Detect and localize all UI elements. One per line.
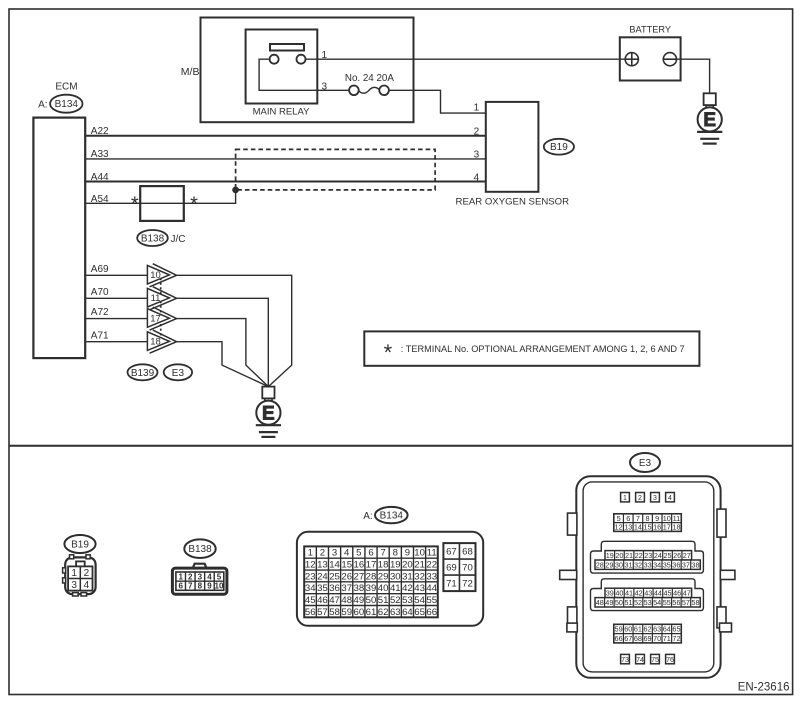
- svg-text:67: 67: [446, 546, 457, 557]
- svg-text:9: 9: [405, 548, 410, 559]
- wire from triangle 11 to ground: [177, 298, 269, 386]
- svg-text:54: 54: [653, 598, 661, 607]
- svg-text:3: 3: [322, 81, 328, 92]
- svg-text:38: 38: [354, 583, 365, 594]
- section divider: [9, 445, 793, 447]
- svg-text:33: 33: [644, 560, 652, 569]
- svg-text:1: 1: [623, 495, 627, 502]
- E3 pins 59-72: [614, 624, 681, 643]
- svg-text:63: 63: [653, 625, 661, 634]
- svg-text:73: 73: [621, 657, 629, 664]
- connector E3 body outer: [576, 476, 720, 678]
- svg-text:7: 7: [636, 514, 640, 523]
- svg-text:B134: B134: [380, 511, 404, 522]
- svg-text:66: 66: [426, 607, 437, 618]
- svg-text:50: 50: [615, 598, 623, 607]
- svg-text:E3: E3: [639, 458, 652, 469]
- svg-text:45: 45: [663, 588, 671, 597]
- svg-text:68: 68: [634, 634, 642, 643]
- connector B138 body: [193, 564, 207, 568]
- svg-text:27: 27: [683, 551, 691, 560]
- E3 pins 19-27: [605, 551, 692, 560]
- svg-text:23: 23: [644, 551, 652, 560]
- svg-text:24: 24: [317, 571, 328, 582]
- connector B19 pin grid: [68, 566, 92, 590]
- wire A22 to sensor pin 2: [85, 135, 486, 137]
- svg-text:71: 71: [446, 578, 457, 589]
- wire from triangle 18 to ground: [177, 342, 269, 387]
- svg-text:34: 34: [653, 560, 661, 569]
- svg-text:2: 2: [638, 495, 642, 502]
- svg-text:10: 10: [414, 548, 425, 559]
- svg-text:72: 72: [462, 578, 473, 589]
- svg-text:1: 1: [308, 548, 313, 559]
- svg-text:J/C: J/C: [171, 234, 186, 245]
- svg-text:5: 5: [617, 514, 621, 523]
- wire A70: [85, 297, 147, 299]
- svg-text:54: 54: [414, 595, 425, 606]
- wire from triangle 17 to ground: [177, 319, 269, 387]
- svg-text:18: 18: [378, 559, 389, 570]
- E3 pins 48-58: [595, 598, 700, 607]
- svg-text:46: 46: [317, 595, 328, 606]
- connector oval B19 bottom: [64, 535, 95, 553]
- svg-text:30: 30: [615, 560, 623, 569]
- E3 pins 39-47: [605, 588, 692, 597]
- svg-text:61: 61: [366, 607, 377, 618]
- svg-text:62: 62: [378, 607, 389, 618]
- svg-text:26: 26: [673, 551, 681, 560]
- svg-text:ECM: ECM: [55, 82, 77, 93]
- svg-text:76: 76: [666, 657, 674, 664]
- svg-text:B134: B134: [55, 99, 79, 110]
- svg-text:1: 1: [178, 572, 183, 581]
- fuse No. 24 20A: [349, 86, 359, 96]
- svg-text:49: 49: [605, 598, 613, 607]
- battery plus terminal: [625, 53, 638, 66]
- svg-text:6: 6: [368, 548, 373, 559]
- svg-text:3: 3: [332, 548, 337, 559]
- junction node on shield: [232, 187, 239, 194]
- shield dashed box: [236, 149, 436, 190]
- svg-text:11: 11: [151, 293, 161, 304]
- svg-text:47: 47: [329, 595, 340, 606]
- svg-text:B19: B19: [71, 539, 89, 550]
- svg-text:49: 49: [354, 595, 365, 606]
- ground E battery: [704, 93, 716, 105]
- svg-text:B138: B138: [141, 233, 165, 244]
- wire A71: [85, 341, 147, 343]
- svg-text:A72: A72: [91, 307, 109, 318]
- wire battery to ground: [677, 59, 710, 93]
- svg-text:*: *: [131, 194, 139, 216]
- svg-text:37: 37: [341, 583, 352, 594]
- svg-text:29: 29: [605, 560, 613, 569]
- note box: [364, 331, 699, 365]
- svg-text:17: 17: [150, 313, 161, 324]
- svg-text:21: 21: [625, 551, 633, 560]
- svg-text:4: 4: [207, 572, 212, 581]
- svg-text:32: 32: [414, 571, 425, 582]
- svg-text:56: 56: [305, 607, 316, 618]
- svg-text:1: 1: [71, 568, 77, 579]
- relay contact right: [297, 55, 306, 64]
- svg-text:65: 65: [672, 625, 680, 634]
- wire fuse to sensor pin 1: [389, 90, 486, 113]
- svg-text:14: 14: [329, 559, 340, 570]
- svg-text:E: E: [703, 110, 716, 131]
- svg-text:64: 64: [402, 607, 413, 618]
- svg-text:55: 55: [426, 595, 437, 606]
- svg-text:B138: B138: [188, 544, 212, 555]
- svg-text:43: 43: [414, 583, 425, 594]
- svg-text:53: 53: [644, 598, 652, 607]
- svg-text:25: 25: [663, 551, 671, 560]
- svg-text:BATTERY: BATTERY: [629, 24, 671, 34]
- E3 block 39-58 outline: [591, 579, 704, 611]
- svg-text:23: 23: [305, 571, 316, 582]
- svg-text:34: 34: [305, 583, 316, 594]
- svg-text:59: 59: [341, 607, 352, 618]
- svg-text:8: 8: [646, 514, 650, 523]
- svg-text:1: 1: [322, 50, 328, 61]
- svg-text:15: 15: [643, 523, 651, 532]
- svg-text:22: 22: [635, 551, 643, 560]
- svg-text:60: 60: [624, 625, 632, 634]
- svg-text:27: 27: [354, 571, 365, 582]
- svg-text:43: 43: [644, 588, 652, 597]
- svg-text:48: 48: [596, 598, 604, 607]
- svg-text:6: 6: [178, 582, 183, 591]
- svg-text:M/B: M/B: [181, 66, 200, 78]
- svg-text:22: 22: [426, 559, 437, 570]
- svg-text:40: 40: [378, 583, 389, 594]
- svg-text:35: 35: [317, 583, 328, 594]
- svg-text:8: 8: [393, 548, 398, 559]
- connector B134 body: [297, 532, 483, 626]
- svg-text:53: 53: [402, 595, 413, 606]
- svg-text:21: 21: [414, 559, 425, 570]
- svg-text:3: 3: [198, 572, 203, 581]
- svg-text:41: 41: [625, 588, 633, 597]
- svg-text:3: 3: [653, 495, 657, 502]
- svg-text:61: 61: [634, 625, 642, 634]
- svg-text:5: 5: [356, 548, 361, 559]
- svg-text:6: 6: [626, 514, 630, 523]
- connector oval B138 bottom: [184, 539, 215, 558]
- svg-text:32: 32: [634, 560, 642, 569]
- connector E3 side tabs: [568, 513, 577, 535]
- svg-text:15: 15: [341, 559, 352, 570]
- svg-text:20: 20: [402, 559, 413, 570]
- battery minus terminal: [663, 53, 676, 66]
- svg-text:13: 13: [317, 559, 328, 570]
- svg-text:40: 40: [615, 588, 623, 597]
- svg-text:A70: A70: [91, 287, 109, 298]
- svg-text:62: 62: [643, 625, 651, 634]
- svg-text:16: 16: [354, 559, 365, 570]
- svg-text:11: 11: [427, 548, 437, 559]
- svg-text:2: 2: [188, 572, 193, 581]
- svg-text:11: 11: [673, 514, 681, 523]
- svg-text:4: 4: [474, 172, 480, 183]
- svg-text:63: 63: [390, 607, 401, 618]
- svg-text:28: 28: [596, 560, 604, 569]
- svg-text:EN-23616: EN-23616: [738, 682, 790, 694]
- svg-text:19: 19: [606, 551, 614, 560]
- E3 pins 73-76: [621, 654, 630, 663]
- svg-text:10: 10: [663, 514, 671, 523]
- connector oval B19: [544, 139, 574, 155]
- svg-text:18: 18: [150, 337, 161, 348]
- svg-text:56: 56: [672, 598, 680, 607]
- svg-text:19: 19: [390, 559, 401, 570]
- svg-text:4: 4: [84, 580, 90, 591]
- svg-text:30: 30: [390, 571, 401, 582]
- svg-text:58: 58: [691, 598, 699, 607]
- svg-text:28: 28: [366, 571, 377, 582]
- svg-text:44: 44: [426, 583, 437, 594]
- svg-text:58: 58: [329, 607, 340, 618]
- svg-text:20: 20: [615, 551, 623, 560]
- svg-text:9: 9: [207, 582, 212, 591]
- connector B19 body: [65, 557, 95, 594]
- svg-text:51: 51: [624, 598, 632, 607]
- svg-text:A71: A71: [91, 330, 109, 341]
- shield connector triangle 18: [150, 330, 177, 353]
- svg-text:17: 17: [366, 559, 377, 570]
- relay coil: [270, 44, 304, 51]
- svg-text:MAIN RELAY: MAIN RELAY: [253, 107, 311, 118]
- svg-text:4: 4: [344, 548, 350, 559]
- wire A33 to sensor pin 3: [85, 158, 486, 160]
- svg-text:36: 36: [672, 560, 680, 569]
- E3 pins 1-4: [621, 493, 630, 502]
- svg-text:71: 71: [663, 634, 671, 643]
- svg-text:3: 3: [474, 150, 480, 161]
- svg-text:2: 2: [320, 548, 325, 559]
- svg-text:A22: A22: [91, 126, 109, 137]
- MAIN RELAY box: [246, 30, 318, 104]
- svg-text:29: 29: [378, 571, 389, 582]
- svg-text:51: 51: [378, 595, 389, 606]
- E3 pins 28-38: [595, 560, 700, 569]
- connector B134 side pin grid 67-72: [443, 543, 475, 591]
- svg-text:47: 47: [683, 588, 691, 597]
- svg-text:39: 39: [606, 588, 614, 597]
- svg-text:65: 65: [414, 607, 425, 618]
- svg-text:69: 69: [446, 562, 457, 573]
- battery box: [620, 37, 681, 80]
- svg-text:13: 13: [624, 523, 632, 532]
- ECM connector box: [33, 118, 85, 359]
- svg-text:A:: A:: [363, 511, 372, 522]
- svg-text:4: 4: [668, 495, 672, 502]
- svg-text:B139: B139: [131, 368, 155, 379]
- connector oval E3 top: [164, 364, 192, 380]
- E3 pins 5-18: [614, 514, 681, 532]
- svg-text:68: 68: [462, 546, 473, 557]
- connector oval B139: [128, 364, 158, 380]
- shield connector triangle 11: [150, 287, 177, 310]
- svg-text:3: 3: [71, 580, 77, 591]
- svg-text:52: 52: [634, 598, 642, 607]
- svg-text:67: 67: [624, 634, 632, 643]
- svg-text:E: E: [262, 403, 275, 424]
- relay internal wire to pin 3: [259, 59, 349, 90]
- svg-text:36: 36: [329, 583, 340, 594]
- svg-text:: TERMINAL No. OPTIONAL ARRANG: : TERMINAL No. OPTIONAL ARRANGEMENT AMON…: [401, 344, 685, 354]
- svg-text:72: 72: [672, 634, 680, 643]
- svg-text:50: 50: [366, 595, 377, 606]
- svg-text:16: 16: [653, 523, 661, 532]
- svg-text:12: 12: [305, 559, 316, 570]
- shield drain dotted link: [160, 278, 162, 338]
- svg-text:2: 2: [474, 126, 480, 137]
- svg-text:41: 41: [390, 583, 401, 594]
- svg-text:2: 2: [84, 568, 90, 579]
- connector oval B134: [50, 95, 82, 113]
- svg-text:42: 42: [635, 588, 643, 597]
- svg-text:60: 60: [354, 607, 365, 618]
- svg-text:55: 55: [663, 598, 671, 607]
- M/B fuse box: [201, 18, 414, 123]
- svg-text:37: 37: [682, 560, 690, 569]
- svg-text:39: 39: [366, 583, 377, 594]
- svg-text:38: 38: [691, 560, 699, 569]
- connector E3 body inner: [583, 482, 714, 672]
- wire relay pin 1 to battery: [305, 58, 625, 60]
- svg-text:REAR OXYGEN SENSOR: REAR OXYGEN SENSOR: [456, 197, 570, 208]
- connector B138 pin grid: [176, 572, 224, 590]
- ground E shielded wires: [262, 387, 274, 399]
- junction connector B138 J/C box: [140, 186, 184, 221]
- svg-text:24: 24: [654, 551, 662, 560]
- svg-text:57: 57: [682, 598, 690, 607]
- svg-text:70: 70: [653, 634, 661, 643]
- wire A72: [85, 318, 147, 320]
- svg-text:57: 57: [317, 607, 328, 618]
- svg-text:12: 12: [615, 523, 623, 532]
- svg-text:42: 42: [402, 583, 413, 594]
- svg-text:26: 26: [341, 571, 352, 582]
- svg-text:74: 74: [636, 657, 644, 664]
- svg-text:A:: A:: [38, 99, 47, 110]
- svg-text:10: 10: [150, 270, 161, 281]
- svg-text:33: 33: [426, 571, 437, 582]
- svg-text:64: 64: [663, 625, 671, 634]
- svg-text:75: 75: [651, 657, 659, 664]
- svg-text:48: 48: [341, 595, 352, 606]
- svg-text:No. 24 20A: No. 24 20A: [345, 73, 394, 84]
- svg-text:8: 8: [198, 582, 203, 591]
- svg-text:25: 25: [329, 571, 340, 582]
- svg-text:52: 52: [390, 595, 401, 606]
- svg-text:44: 44: [654, 588, 662, 597]
- svg-text:E3: E3: [172, 368, 185, 379]
- relay contact left: [270, 55, 279, 64]
- svg-text:7: 7: [380, 548, 385, 559]
- svg-text:66: 66: [615, 634, 623, 643]
- connector B134 main pin grid: [304, 546, 438, 617]
- svg-text:45: 45: [305, 595, 316, 606]
- svg-text:A44: A44: [91, 172, 109, 183]
- svg-text:*: *: [384, 340, 393, 365]
- rear oxygen sensor box: [486, 102, 539, 192]
- wire A54 shield drain: [85, 190, 235, 203]
- svg-text:31: 31: [624, 560, 632, 569]
- connector B19 keyway: [76, 561, 85, 566]
- svg-text:35: 35: [663, 560, 671, 569]
- svg-text:A69: A69: [91, 264, 109, 275]
- wire A44 to sensor pin 4: [85, 181, 486, 183]
- svg-text:70: 70: [462, 562, 473, 573]
- svg-text:B19: B19: [550, 142, 568, 153]
- svg-text:59: 59: [615, 625, 623, 634]
- connector oval E3 bottom: [630, 453, 660, 472]
- svg-text:9: 9: [655, 514, 659, 523]
- svg-text:A54: A54: [91, 194, 109, 205]
- wire from triangle 10 to ground: [177, 275, 292, 386]
- shield connector triangle 17: [150, 307, 177, 330]
- svg-text:31: 31: [402, 571, 413, 582]
- svg-text:A33: A33: [91, 149, 109, 160]
- svg-text:46: 46: [673, 588, 681, 597]
- svg-text:69: 69: [643, 634, 651, 643]
- E3 block 19-38 outline: [591, 541, 704, 573]
- svg-text:10: 10: [215, 582, 224, 591]
- svg-text:*: *: [190, 194, 198, 216]
- connector oval B138 top: [137, 230, 168, 246]
- shield connector triangle 10: [150, 264, 177, 287]
- svg-text:7: 7: [188, 582, 193, 591]
- svg-text:14: 14: [634, 523, 642, 532]
- svg-text:17: 17: [663, 523, 671, 532]
- svg-text:1: 1: [474, 103, 480, 114]
- connector oval B134 bottom: [375, 507, 408, 523]
- svg-text:18: 18: [672, 523, 680, 532]
- wire A69: [85, 274, 147, 276]
- svg-text:5: 5: [217, 572, 222, 581]
